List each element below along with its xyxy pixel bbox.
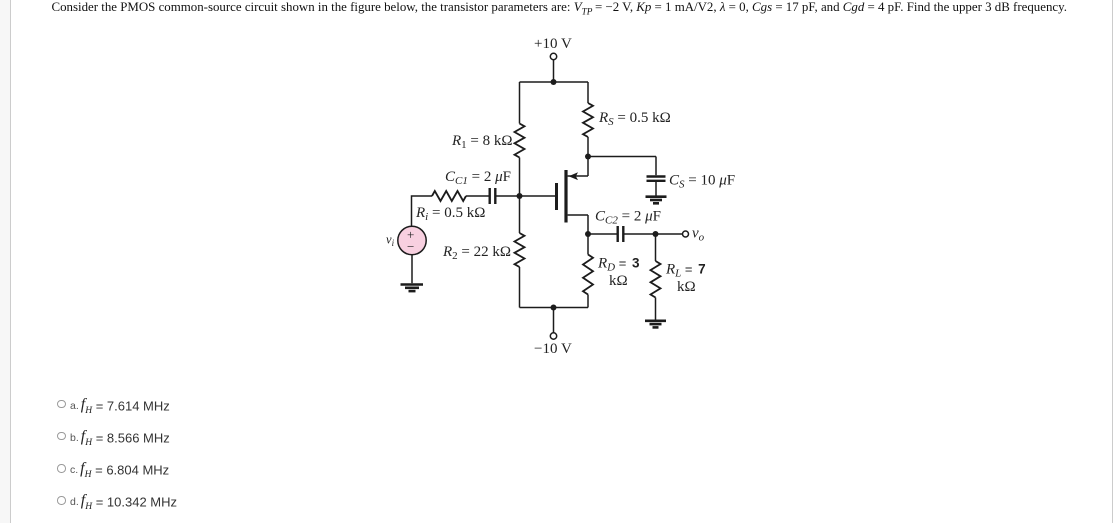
svg-text:CC2 = 2 μF: CC2 = 2 μF <box>595 209 661 227</box>
resistor R2 <box>515 233 525 267</box>
ground <box>401 285 424 292</box>
svg-text:vi: vi <box>386 233 395 249</box>
transistor M1 (PMOS) <box>557 170 589 223</box>
wire <box>625 233 683 235</box>
wire <box>655 157 657 176</box>
ground <box>645 321 666 328</box>
resistor Ri <box>432 191 466 201</box>
wire <box>519 82 521 124</box>
svg-text:Ri = 0.5 kΩ: Ri = 0.5 kΩ <box>415 205 485 223</box>
wire <box>588 156 656 158</box>
wire <box>519 158 521 234</box>
voltage source vi <box>398 226 426 254</box>
svg-text:RS = 0.5 kΩ: RS = 0.5 kΩ <box>598 110 671 128</box>
capacitor CS <box>647 177 666 181</box>
svg-text:kΩ: kΩ <box>609 273 628 289</box>
option a <box>57 396 170 418</box>
wire <box>519 267 521 308</box>
svg-text:CC1 = 2 μF: CC1 = 2 μF <box>445 169 511 187</box>
node vo terminal <box>683 231 689 237</box>
node +10 V terminal <box>550 53 556 59</box>
wire <box>587 82 589 103</box>
svg-text:R1 = 8 kΩ: R1 = 8 kΩ <box>451 133 513 151</box>
svg-text:−: − <box>407 239 414 254</box>
wire <box>587 215 589 234</box>
junction <box>585 231 591 237</box>
svg-text:−10 V: −10 V <box>534 341 572 357</box>
wire <box>587 137 589 176</box>
wire <box>412 196 433 226</box>
question text <box>52 0 1092 18</box>
junction <box>585 154 591 160</box>
wire <box>411 255 413 284</box>
wire <box>497 195 520 197</box>
capacitor CC2 <box>618 226 624 242</box>
wire <box>553 60 555 82</box>
wire <box>553 308 555 333</box>
wire <box>466 195 489 197</box>
wire <box>520 307 589 309</box>
svg-text:R2 = 22 kΩ: R2 = 22 kΩ <box>442 244 511 262</box>
wire <box>520 81 589 83</box>
junction <box>551 79 557 85</box>
option c <box>57 460 169 482</box>
resistor RS <box>583 103 593 137</box>
svg-text:RL = 7: RL = 7 <box>665 262 706 280</box>
option b <box>57 428 170 450</box>
resistor RD <box>583 234 593 308</box>
option d <box>57 492 177 514</box>
junction <box>653 231 659 237</box>
node -10 V terminal <box>550 333 556 339</box>
resistor R1 <box>515 124 525 158</box>
svg-text:kΩ: kΩ <box>677 279 696 295</box>
svg-text:vo: vo <box>692 226 705 244</box>
capacitor CC1 <box>490 188 496 204</box>
wire <box>588 233 617 235</box>
svg-text:CS = 10 μF: CS = 10 μF <box>669 173 735 191</box>
svg-text:RD = 3: RD = 3 <box>597 256 640 274</box>
wire <box>655 182 657 196</box>
junction <box>517 193 523 199</box>
junction <box>551 305 557 311</box>
wire <box>520 195 556 197</box>
svg-text:+10 V: +10 V <box>534 36 572 52</box>
resistor RL <box>651 234 661 320</box>
ground <box>646 197 667 204</box>
